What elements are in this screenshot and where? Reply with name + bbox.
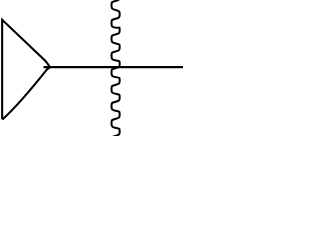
- op-amp U1 (triangle buffer symbol): [2, 20, 50, 119]
- wire (horizontal output line): [44, 66, 185, 68]
- inductor L1 (vertical coil crossing wire): [112, 0, 120, 146]
